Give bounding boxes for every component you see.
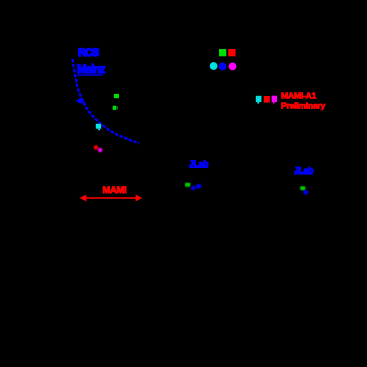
data point cyan square on curve xyxy=(96,124,101,129)
svg-text:Preliminary: Preliminary xyxy=(281,101,325,111)
legend green square xyxy=(219,49,226,56)
data point red dot xyxy=(94,145,99,150)
svg-text:Mainz: Mainz xyxy=(77,64,106,76)
curve theory (blue dashed) xyxy=(72,59,139,143)
data cluster left: green square xyxy=(185,183,190,187)
data point green square lower xyxy=(113,106,116,110)
marker red square MAMI-A1 xyxy=(264,96,270,103)
data point magenta dot xyxy=(98,148,103,153)
legend blue circle xyxy=(219,63,227,71)
svg-text:MAMI: MAMI xyxy=(103,185,127,195)
legend magenta circle xyxy=(229,63,237,71)
legend red square xyxy=(228,49,235,56)
data cluster left: blue dot small xyxy=(191,186,196,190)
marker cyan square MAMI-A1 xyxy=(256,96,262,102)
svg-text:MAMI-A1: MAMI-A1 xyxy=(281,91,317,101)
legend cyan circle xyxy=(210,62,218,70)
MAMI range double arrow (red) xyxy=(84,197,138,199)
svg-text:RCS: RCS xyxy=(78,47,99,59)
data cluster left: blue dot large xyxy=(196,184,202,189)
data point green square upper xyxy=(114,94,119,98)
marker magenta square MAMI-A1 xyxy=(272,96,277,102)
data cluster right: blue dot xyxy=(303,190,308,195)
data cluster right: green square xyxy=(300,186,305,190)
data point blue square with error bar xyxy=(76,100,84,102)
